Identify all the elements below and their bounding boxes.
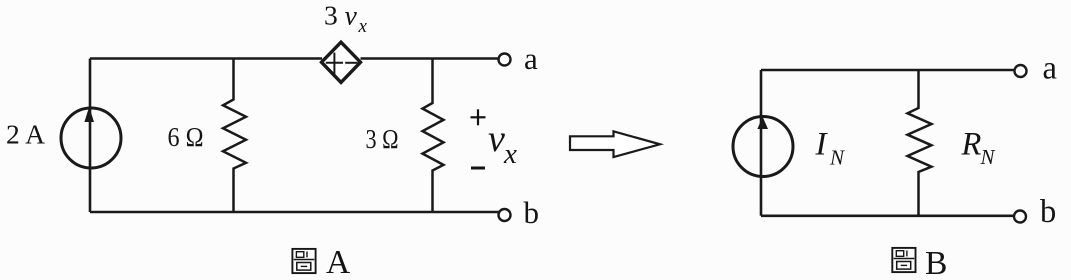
svg-text:a: a: [524, 41, 538, 76]
svg-text:6 Ω: 6 Ω: [168, 121, 204, 152]
svg-text:v: v: [488, 118, 505, 160]
svg-text:N: N: [980, 145, 996, 169]
svg-text:N: N: [829, 146, 845, 170]
svg-text:3 Ω: 3 Ω: [366, 123, 399, 154]
svg-text:2 A: 2 A: [6, 119, 45, 150]
svg-text:B: B: [925, 245, 947, 280]
svg-text:R: R: [961, 127, 982, 163]
svg-text:a: a: [1043, 51, 1057, 87]
svg-text:I: I: [815, 127, 829, 163]
svg-text:3 v: 3 v: [324, 0, 358, 31]
svg-text:x: x: [503, 138, 517, 170]
svg-text:b: b: [524, 195, 540, 230]
svg-text:x: x: [358, 16, 368, 37]
svg-text:A: A: [326, 244, 350, 280]
svg-text:b: b: [1040, 194, 1056, 230]
